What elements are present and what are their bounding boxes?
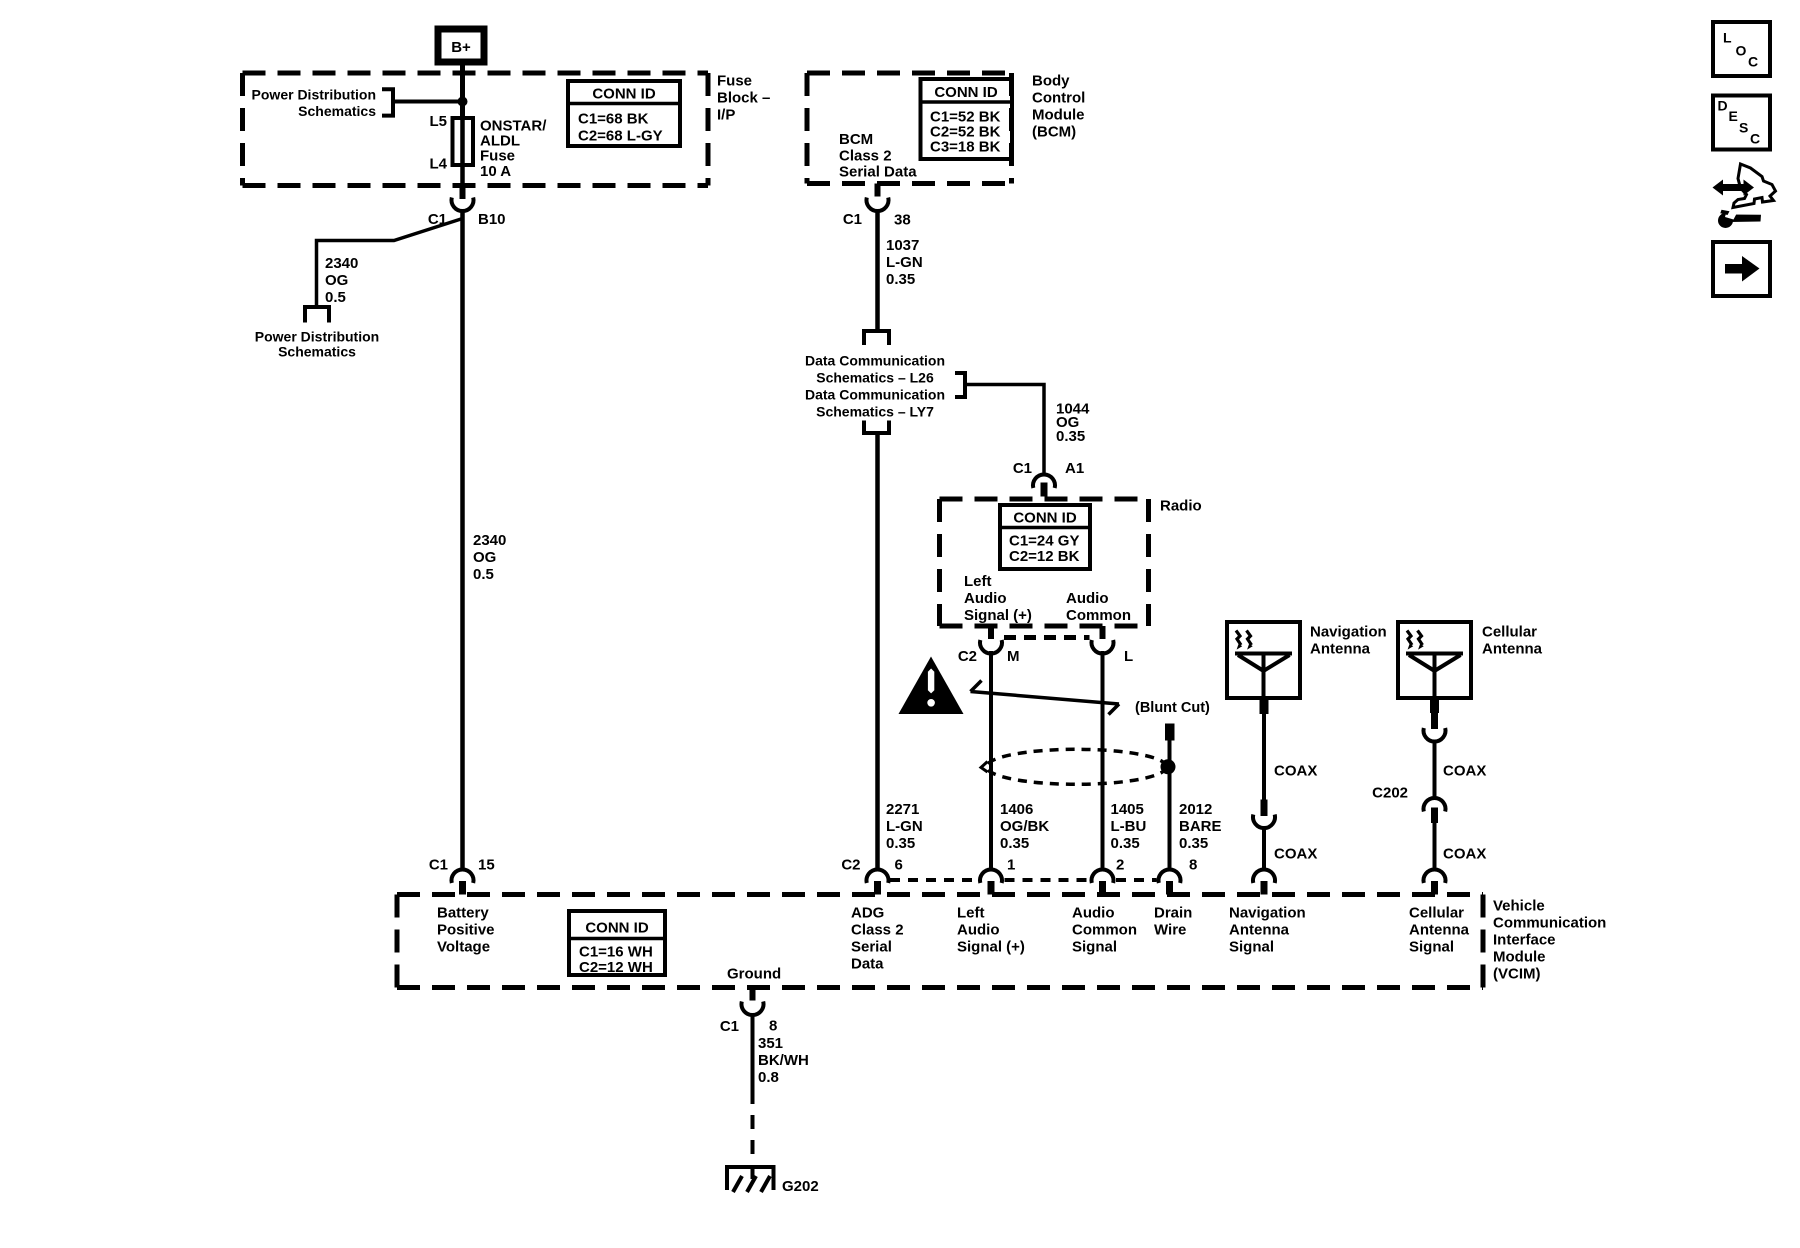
- CONN ID table (BCM): [921, 79, 1013, 159]
- svg-text:L: L: [1723, 30, 1732, 46]
- cellular antenna interference bolts: [1407, 631, 1423, 646]
- bracket to radio branch: [955, 373, 965, 397]
- connector C2 pin M (radio left audio): [988, 626, 994, 639]
- BCM dashed box: [807, 73, 1012, 184]
- svg-text:COAX: COAX: [1443, 763, 1486, 780]
- svg-text:COAX: COAX: [1274, 846, 1317, 863]
- connector C1 pin 15 (into VCIM): [452, 869, 474, 883]
- navigation antenna box: [1227, 622, 1300, 698]
- cellular coax wire upper: [1433, 741, 1437, 800]
- svg-text:15: 15: [478, 857, 495, 874]
- fuse ONSTAR/ALDL 10A: [460, 118, 465, 186]
- svg-text:L: L: [1124, 648, 1133, 665]
- cellular coax wire lower: [1433, 823, 1437, 870]
- off-page bracket (bottom): [864, 421, 889, 434]
- navigation antenna symbol: [1235, 654, 1292, 699]
- icon diagnostic (arrows and wrench): [1713, 164, 1776, 228]
- navigation coax wire lower: [1262, 828, 1266, 871]
- svg-text:CONN ID: CONN ID: [592, 86, 656, 103]
- radio dashed box: [940, 499, 1149, 626]
- cellular coax stub below box: [1430, 698, 1439, 713]
- svg-text:COAX: COAX: [1443, 846, 1486, 863]
- svg-text:CONN ID: CONN ID: [934, 84, 998, 101]
- connector link dashed (radio C2): [1004, 635, 1090, 640]
- wire 1037 L-GN (BCM down to off-page bracket): [875, 211, 880, 331]
- icon DESC box: [1713, 96, 1770, 150]
- svg-text:M: M: [1007, 648, 1020, 665]
- svg-text:C2: C2: [958, 648, 977, 665]
- wire 1405 audio common down to VCIM: [1101, 651, 1105, 870]
- warning note triangle: [899, 657, 964, 715]
- svg-text:C: C: [1750, 131, 1760, 147]
- svg-text:S: S: [1739, 120, 1748, 136]
- cellular in-line coax connector (upper): [1431, 713, 1438, 729]
- wire bracket to junction: [393, 100, 463, 104]
- connector pin 1 (left audio into VCIM): [980, 869, 1002, 883]
- wire 351 BK/WH solid: [751, 1015, 755, 1090]
- junction dot on drain wire: [1161, 759, 1176, 774]
- twisted pair callout arrow: [971, 692, 1120, 705]
- fuse block I/P dashed box: [243, 73, 709, 186]
- svg-text:2: 2: [1116, 857, 1124, 874]
- svg-text:1: 1: [1007, 857, 1015, 874]
- connector C1 pin 38 (BCM): [875, 184, 881, 197]
- ground G202 symbol: [727, 1167, 774, 1192]
- svg-text:Ground: Ground: [727, 966, 781, 983]
- svg-text:G202: G202: [782, 1178, 819, 1195]
- svg-text:CONN ID: CONN ID: [1013, 510, 1077, 527]
- svg-text:C: C: [1748, 54, 1758, 70]
- connector C202: [1424, 798, 1446, 812]
- wire off-page bracket down to VCIM: [875, 433, 880, 870]
- svg-text:L4: L4: [429, 156, 447, 173]
- navigation antenna interference bolts: [1236, 631, 1252, 646]
- svg-text:C1=24 GYC2=12 BK: C1=24 GYC2=12 BK: [1009, 533, 1080, 566]
- cellular antenna box: [1398, 622, 1471, 698]
- wire 351 dashed run to ground: [751, 1090, 755, 1186]
- connector C1 pin B10 (fuse block to wire): [460, 186, 466, 199]
- connector cellular antenna into VCIM: [1424, 869, 1446, 883]
- svg-text:(Blunt Cut): (Blunt Cut): [1135, 700, 1210, 716]
- svg-text:6: 6: [895, 857, 903, 874]
- svg-text:A1: A1: [1065, 460, 1084, 477]
- twisted pair dashed loop: [987, 749, 1167, 784]
- wire B+ to fuse: [460, 65, 465, 120]
- off-page bracket (top): [864, 331, 889, 345]
- navigation coax stub below box: [1260, 698, 1269, 714]
- svg-text:COAX: COAX: [1274, 763, 1317, 780]
- wire 1406 left audio down to VCIM: [989, 651, 993, 870]
- wire branch to power distribution: [317, 219, 462, 306]
- CONN ID table (fuse block): [568, 81, 680, 146]
- connector link dashed (VCIM C2): [890, 878, 978, 882]
- connector pin 2 (audio common into VCIM): [1092, 869, 1114, 883]
- wire 2340 OG main run down to VCIM: [460, 211, 465, 870]
- navigation in-line coax connector: [1261, 800, 1268, 817]
- connector pin 8 (drain into VCIM): [1159, 869, 1181, 883]
- connector C2 pin 6 (BCM data into VCIM): [867, 869, 889, 883]
- svg-text:C1: C1: [843, 211, 862, 228]
- svg-text:8: 8: [1189, 857, 1197, 874]
- bracket to Power Distribution Schematics (bottom): [305, 307, 329, 323]
- CONN ID table (VCIM): [569, 911, 665, 976]
- CONN ID table (radio): [1000, 505, 1090, 569]
- junction node: [458, 97, 468, 107]
- svg-text:38: 38: [894, 212, 911, 229]
- svg-text:8: 8: [769, 1018, 777, 1035]
- svg-text:C2: C2: [841, 857, 860, 874]
- svg-text:L5: L5: [429, 113, 447, 130]
- svg-text:C1: C1: [1013, 460, 1032, 477]
- svg-text:D: D: [1718, 98, 1728, 114]
- svg-text:Data CommunicationSchematics –: Data CommunicationSchematics – L26Data C…: [805, 353, 945, 420]
- connector C1 pin 8 (ground out of VCIM): [750, 988, 756, 1001]
- connector navigation antenna into VCIM: [1253, 869, 1275, 883]
- navigation coax wire upper: [1262, 714, 1266, 800]
- cellular antenna symbol: [1406, 654, 1463, 699]
- icon forward arrow box: [1713, 242, 1770, 296]
- bracket to Power Distribution (top): [382, 89, 393, 115]
- svg-text:CONN ID: CONN ID: [585, 920, 649, 937]
- svg-text:B+: B+: [451, 39, 471, 56]
- svg-text:B10: B10: [478, 211, 506, 228]
- svg-text:CellularAntenna: CellularAntenna: [1482, 624, 1543, 658]
- connector pin L (radio audio common): [1100, 626, 1106, 639]
- svg-text:C1=16 WHC2=12 WH: C1=16 WHC2=12 WH: [579, 944, 653, 977]
- icon LOC box: [1713, 22, 1770, 76]
- blunt cut terminal (drain wire): [1165, 724, 1175, 741]
- battery feed B+ symbol: [438, 29, 484, 62]
- svg-text:E: E: [1729, 108, 1738, 124]
- wire 2012 drain down to VCIM: [1168, 741, 1172, 871]
- connector C1 pin A1 (into radio): [1033, 474, 1055, 488]
- svg-text:O: O: [1736, 43, 1747, 59]
- VCIM dashed box: [397, 895, 1483, 988]
- svg-text:C1: C1: [429, 857, 448, 874]
- svg-text:C1: C1: [720, 1018, 739, 1035]
- svg-text:Radio: Radio: [1160, 498, 1202, 515]
- svg-text:C202: C202: [1372, 785, 1408, 802]
- svg-text:C1=52 BKC2=52 BKC3=18 BK: C1=52 BKC2=52 BKC3=18 BK: [930, 109, 1001, 156]
- wire 1044 OG branch to radio: [965, 385, 1044, 475]
- svg-text:BatteryPositiveVoltage: BatteryPositiveVoltage: [437, 905, 495, 956]
